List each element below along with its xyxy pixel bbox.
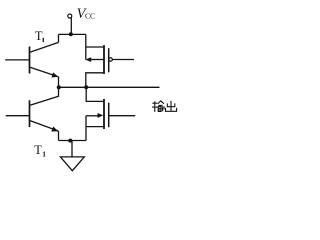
svg-text:T: T — [35, 29, 43, 43]
svg-text:1: 1 — [42, 150, 46, 159]
svg-text:CC: CC — [85, 12, 95, 21]
wire T2 emitter drop — [58, 131, 60, 141]
wire T1 emitter drop — [58, 77, 60, 88]
mosfet M1 bulk arrow left — [85, 57, 91, 62]
wire VCC vertical — [70, 18, 72, 35]
svg-text:T: T — [34, 143, 42, 157]
wire M1 gate lead — [112, 59, 134, 61]
node ground junction dot — [68, 139, 72, 143]
wire T1 collector riser — [58, 34, 60, 42]
wire ground stem — [71, 141, 73, 157]
mosfet M1 bulk line — [90, 59, 104, 61]
label VCC — [77, 6, 95, 22]
mosfet M2 gate bar — [108, 103, 110, 128]
transistor T1 emitter with arrow — [30, 67, 58, 76]
mosfet M1 left rail upper — [85, 34, 87, 59]
wire VCC rail — [59, 33, 86, 35]
transistor T2 base bar — [29, 100, 31, 127]
wire T2 base lead — [6, 115, 30, 117]
wire T1 base lead — [5, 59, 29, 61]
node VCC terminal circle — [68, 14, 72, 18]
mosfet M2 drain corner — [86, 87, 104, 101]
ground symbol triangle — [60, 157, 84, 171]
mosfet M1 source corner — [86, 73, 104, 88]
mosfet M2 channel bar — [103, 99, 105, 129]
mosfet M2 bulk arrow right — [98, 113, 104, 118]
wire output line — [59, 86, 160, 88]
mosfet M2 left rail lower — [85, 116, 87, 141]
mosfet M2 source stub — [86, 126, 104, 128]
wire T1 collector diagonal — [30, 42, 59, 52]
mosfet M1 gate bubble — [109, 58, 113, 62]
label output 输 glyph — [152, 101, 164, 112]
node output junction dot left — [57, 85, 61, 89]
node VCC junction dot — [69, 32, 73, 36]
label T1 top — [35, 29, 44, 43]
transistor T1 base bar — [29, 47, 31, 74]
wire T2 collector riser — [30, 87, 59, 105]
label T1 bottom — [34, 143, 46, 159]
wire ground rail — [59, 140, 87, 142]
node output junction dot right — [84, 85, 88, 89]
transistor T2 emitter with arrow — [30, 121, 58, 131]
mosfet M2 bulk line — [86, 115, 100, 117]
mosfet M1 channel bar — [103, 45, 105, 74]
mosfet M1 drain stub — [86, 46, 104, 48]
wire M2 gate lead — [109, 115, 136, 117]
mosfet M1 gate bar — [108, 48, 110, 72]
label output 出 glyph — [166, 101, 177, 112]
